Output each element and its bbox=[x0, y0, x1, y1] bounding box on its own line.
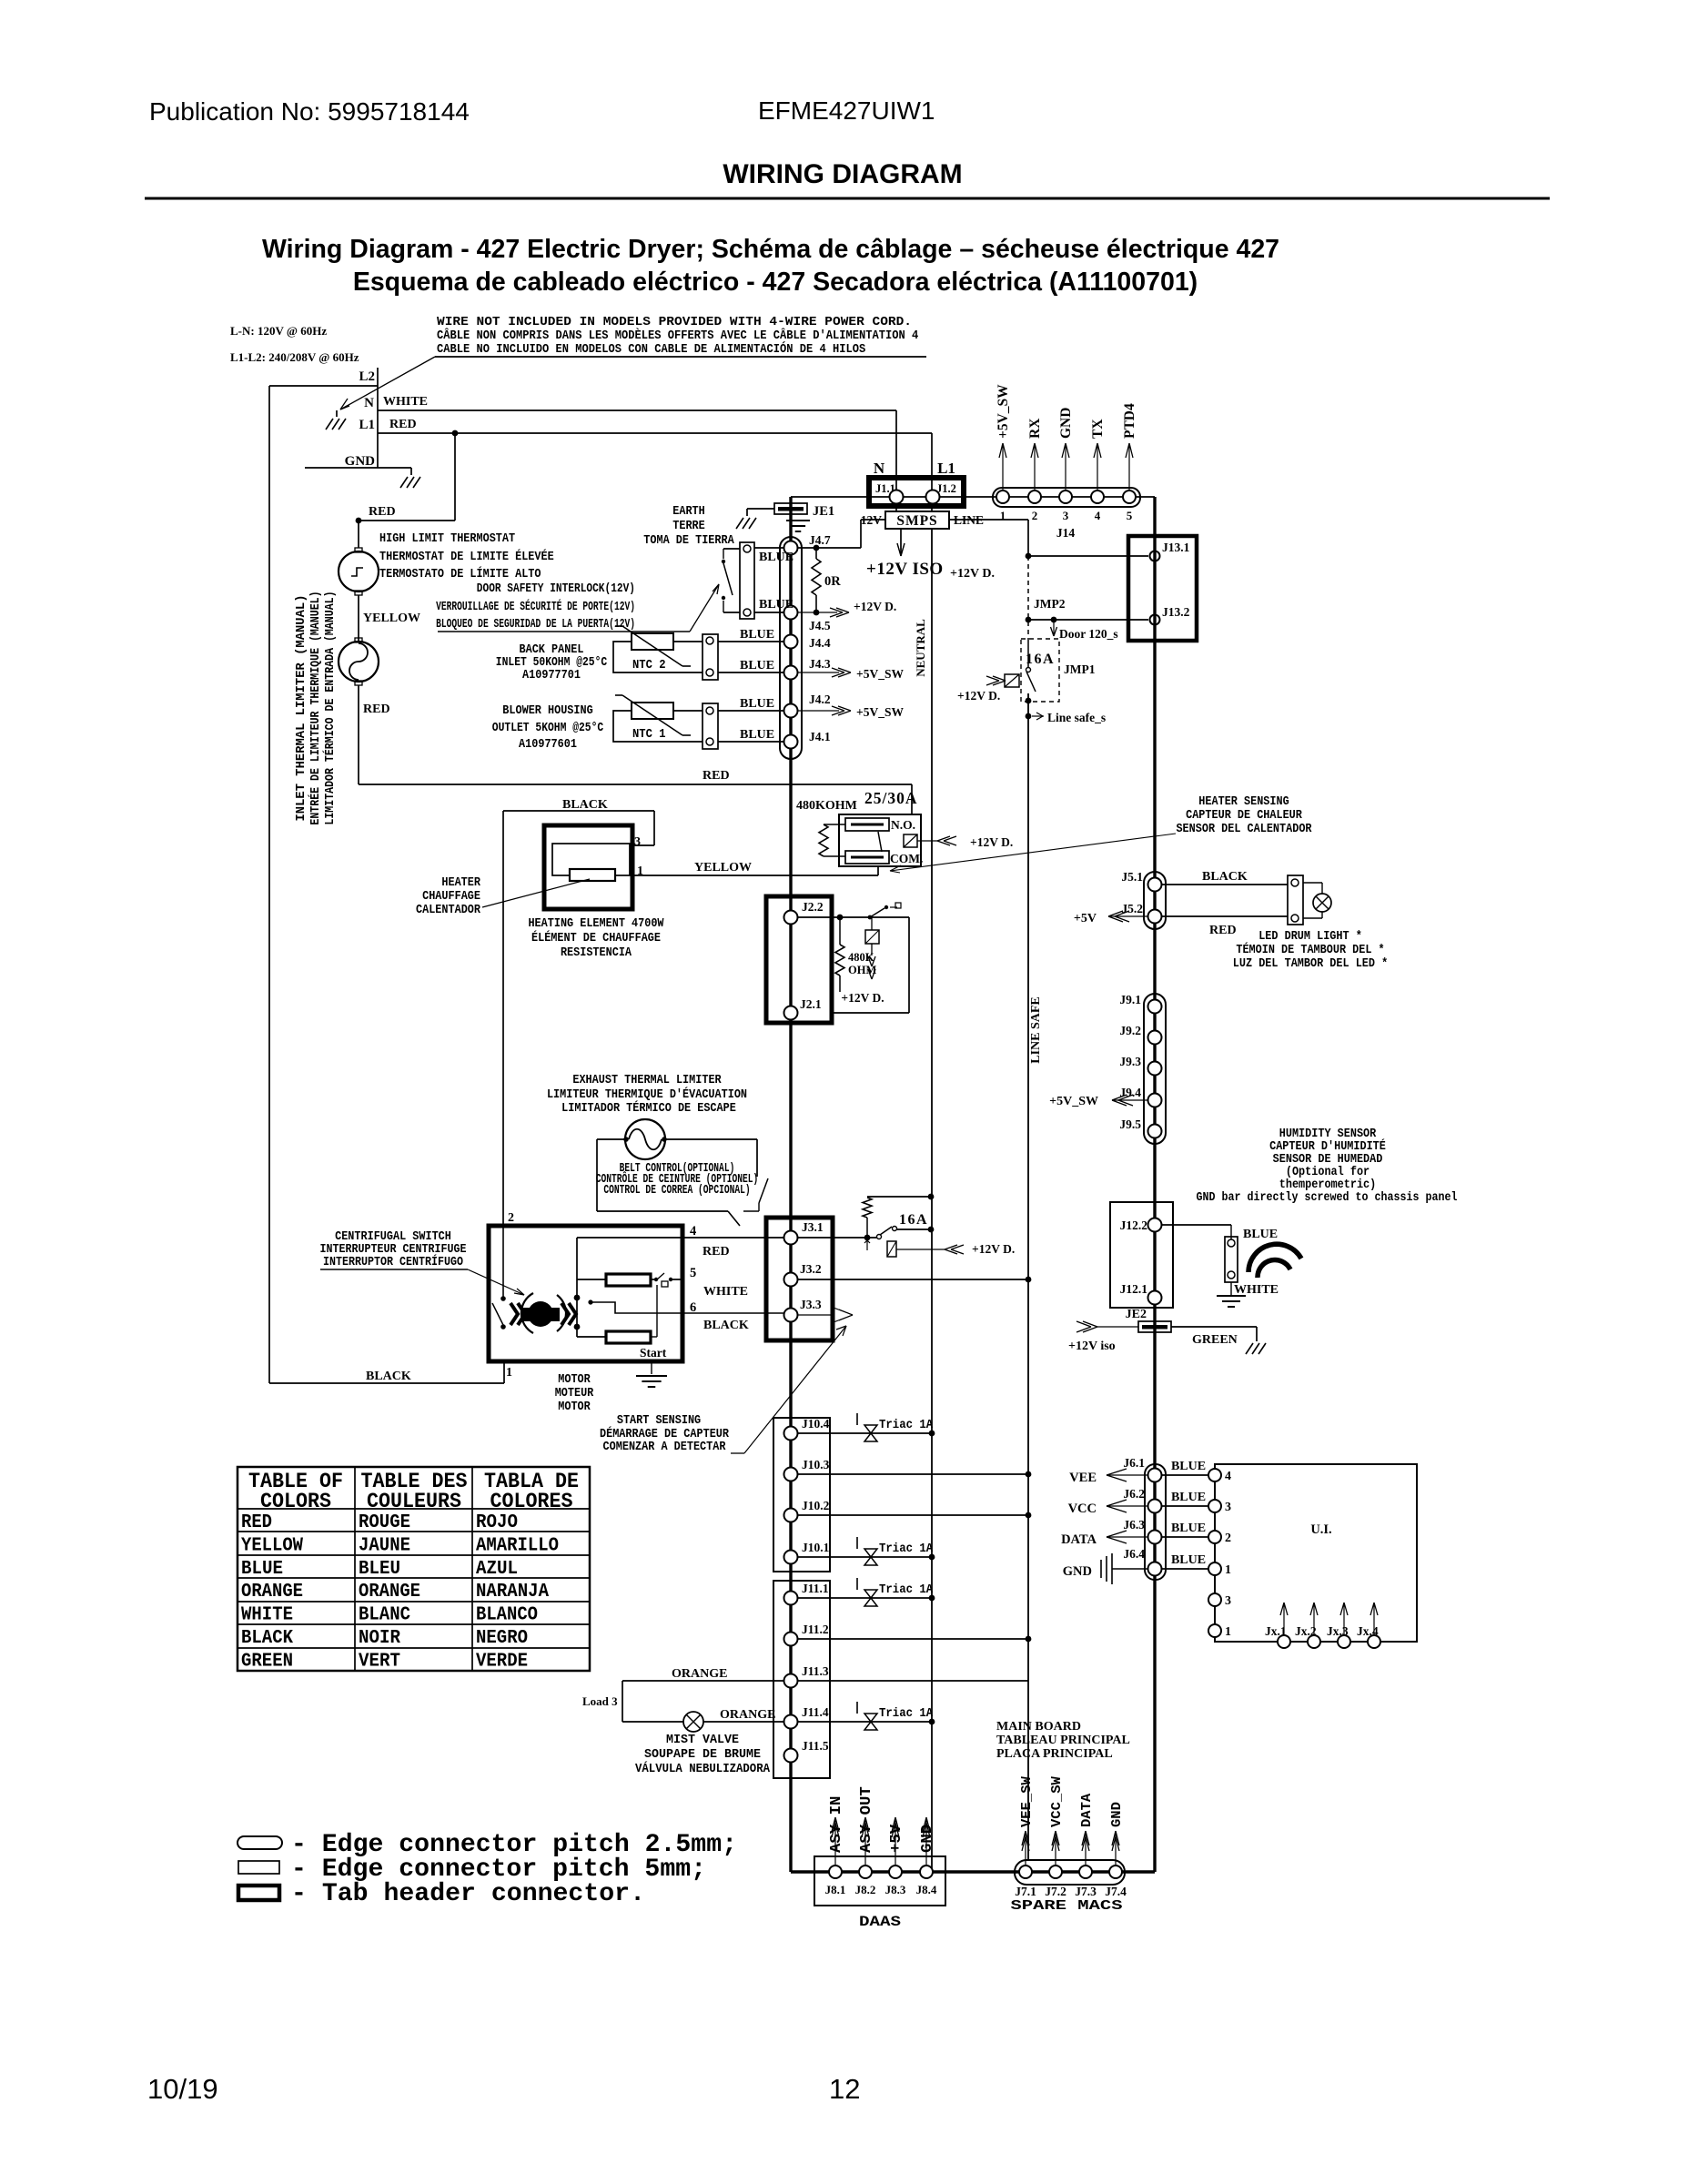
svg-text:A10977601: A10977601 bbox=[519, 737, 577, 752]
svg-text:DOOR SAFETY INTERLOCK(12V): DOOR SAFETY INTERLOCK(12V) bbox=[477, 581, 635, 596]
svg-text:CHAUFFAGE: CHAUFFAGE bbox=[422, 889, 480, 904]
svg-text:MOTEUR: MOTEUR bbox=[555, 1386, 594, 1400]
svg-text:DATA: DATA bbox=[1079, 1794, 1095, 1827]
svg-text:JMP2: JMP2 bbox=[1034, 597, 1066, 611]
svg-text:J9.2: J9.2 bbox=[1119, 1024, 1141, 1037]
svg-text:+12V D.: +12V D. bbox=[972, 1242, 1015, 1256]
svg-text:Esquema de cableado eléctrico: Esquema de cableado eléctrico - 427 Seca… bbox=[353, 268, 1198, 297]
svg-text:+12V iso: +12V iso bbox=[1068, 1340, 1116, 1353]
svg-text:WHITE: WHITE bbox=[703, 1285, 748, 1299]
svg-text:480KOHM: 480KOHM bbox=[796, 799, 857, 813]
svg-text:J9.5: J9.5 bbox=[1119, 1117, 1141, 1131]
svg-text:ENTRÉE DE LIMITEUR THERMIQUE (: ENTRÉE DE LIMITEUR THERMIQUE (MANUEL) bbox=[307, 591, 323, 824]
svg-text:4: 4 bbox=[690, 1224, 696, 1239]
svg-text:GREEN: GREEN bbox=[241, 1651, 293, 1672]
svg-text:BLUE: BLUE bbox=[1171, 1491, 1206, 1504]
svg-text:EARTH: EARTH bbox=[672, 504, 705, 519]
svg-text:Line safe_s: Line safe_s bbox=[1047, 711, 1106, 724]
svg-text:J8.4: J8.4 bbox=[916, 1883, 937, 1896]
svg-text:VERT: VERT bbox=[359, 1651, 400, 1672]
svg-text:J4.3: J4.3 bbox=[809, 657, 831, 671]
svg-text:GND: GND bbox=[1109, 1802, 1125, 1827]
svg-text:4: 4 bbox=[1095, 509, 1101, 522]
svg-text:+5V_SW: +5V_SW bbox=[856, 705, 904, 719]
svg-text:Jx.3: Jx.3 bbox=[1327, 1624, 1349, 1638]
svg-text:J8.3: J8.3 bbox=[885, 1883, 906, 1896]
svg-text:BLUE: BLUE bbox=[1171, 1522, 1206, 1535]
svg-text:VERROUILLAGE DE SÉCURITÉ DE PO: VERROUILLAGE DE SÉCURITÉ DE PORTE(12V) bbox=[436, 598, 635, 614]
svg-text:EXHAUST THERMAL LIMITER: EXHAUST THERMAL LIMITER bbox=[572, 1073, 722, 1087]
svg-text:+12V D.: +12V D. bbox=[950, 567, 995, 581]
svg-text:COM.: COM. bbox=[890, 852, 923, 865]
svg-text:L-N: 120V @ 60Hz: L-N: 120V @ 60Hz bbox=[230, 324, 327, 338]
svg-text:4: 4 bbox=[1225, 1470, 1231, 1483]
svg-text:BLUE: BLUE bbox=[1243, 1228, 1278, 1241]
svg-text:PLACA PRINCIPAL: PLACA PRINCIPAL bbox=[996, 1747, 1113, 1761]
svg-text:BLUE: BLUE bbox=[1171, 1460, 1206, 1473]
svg-text:LED DRUM LIGHT *: LED DRUM LIGHT * bbox=[1258, 929, 1362, 944]
svg-text:J12.2: J12.2 bbox=[1120, 1218, 1148, 1232]
svg-text:J4.5: J4.5 bbox=[809, 619, 831, 632]
svg-text:INLET THERMAL LIMITER (MANUAL): INLET THERMAL LIMITER (MANUAL) bbox=[294, 595, 308, 822]
svg-text:+5V_SW: +5V_SW bbox=[856, 667, 904, 681]
svg-text:J14: J14 bbox=[1056, 526, 1076, 540]
svg-text:AMARILLO: AMARILLO bbox=[476, 1535, 559, 1556]
svg-text:+12V D.: +12V D. bbox=[957, 689, 1000, 703]
svg-text:Publication No: 5995718144: Publication No: 5995718144 bbox=[149, 97, 470, 126]
svg-text:J5.2: J5.2 bbox=[1121, 902, 1143, 915]
svg-text:A10977701: A10977701 bbox=[522, 668, 581, 682]
svg-text:GND: GND bbox=[345, 454, 376, 469]
svg-text:BLOQUEO DE SEGURIDAD DE LA PUE: BLOQUEO DE SEGURIDAD DE LA PUERTA(12V) bbox=[436, 617, 635, 632]
svg-text:16A: 16A bbox=[899, 1212, 928, 1228]
svg-text:J3.2: J3.2 bbox=[800, 1262, 822, 1276]
svg-text:RED: RED bbox=[369, 505, 396, 519]
svg-text:BLUE: BLUE bbox=[241, 1559, 283, 1580]
svg-text:0R: 0R bbox=[824, 574, 841, 589]
svg-text:HEATER: HEATER bbox=[441, 875, 480, 890]
svg-text:RED: RED bbox=[363, 703, 390, 716]
svg-text:+5V: +5V bbox=[888, 1824, 905, 1853]
svg-text:TOMA DE TIERRA: TOMA DE TIERRA bbox=[643, 533, 734, 548]
svg-text:Start: Start bbox=[640, 1346, 667, 1360]
svg-text:HEATING ELEMENT 4700W: HEATING ELEMENT 4700W bbox=[528, 916, 664, 931]
svg-text:Triac 1A: Triac 1A bbox=[879, 1582, 934, 1597]
svg-text:N.O.: N.O. bbox=[891, 818, 915, 832]
svg-text:J6.2: J6.2 bbox=[1123, 1487, 1145, 1501]
svg-text:J6.3: J6.3 bbox=[1123, 1518, 1145, 1532]
svg-text:12: 12 bbox=[829, 2073, 860, 2105]
svg-text:BLOWER HOUSING: BLOWER HOUSING bbox=[502, 703, 592, 718]
svg-text:TÉMOIN DE TAMBOUR DEL *: TÉMOIN DE TAMBOUR DEL * bbox=[1236, 941, 1384, 957]
svg-text:Triac 1A: Triac 1A bbox=[879, 1418, 934, 1432]
svg-text:5: 5 bbox=[1127, 509, 1133, 522]
svg-text:START SENSING: START SENSING bbox=[617, 1413, 701, 1428]
svg-text:J11.4: J11.4 bbox=[802, 1705, 829, 1719]
svg-text:WIRING DIAGRAM: WIRING DIAGRAM bbox=[723, 159, 962, 189]
svg-text:CAPTEUR DE CHALEUR: CAPTEUR DE CHALEUR bbox=[1186, 808, 1302, 823]
svg-text:J11.1: J11.1 bbox=[802, 1582, 829, 1595]
svg-text:VEE_SW: VEE_SW bbox=[1019, 1776, 1035, 1827]
svg-text:+12V D.: +12V D. bbox=[970, 835, 1013, 849]
svg-text:J2.1: J2.1 bbox=[800, 997, 822, 1011]
svg-text:HIGH LIMIT THERMOSTAT: HIGH LIMIT THERMOSTAT bbox=[379, 531, 515, 546]
svg-text:PTD4: PTD4 bbox=[1122, 403, 1137, 439]
svg-text:EFME427UIW1: EFME427UIW1 bbox=[758, 96, 935, 125]
svg-text:+5V_SW: +5V_SW bbox=[1049, 1095, 1098, 1108]
svg-text:ORANGE: ORANGE bbox=[720, 1708, 775, 1722]
svg-text:JE2: JE2 bbox=[1126, 1308, 1147, 1321]
svg-text:INTERRUPTOR CENTRÍFUGO: INTERRUPTOR CENTRÍFUGO bbox=[323, 1253, 463, 1269]
svg-text:1: 1 bbox=[1225, 1625, 1231, 1639]
svg-text:GND: GND bbox=[1058, 408, 1074, 439]
svg-text:THERMOSTAT DE LIMITE ÉLEVÉE: THERMOSTAT DE LIMITE ÉLEVÉE bbox=[379, 548, 554, 564]
svg-text:LUZ DEL TAMBOR DEL LED *: LUZ DEL TAMBOR DEL LED * bbox=[1233, 956, 1388, 971]
svg-text:L1: L1 bbox=[359, 418, 375, 432]
svg-text:RED: RED bbox=[702, 1245, 730, 1259]
svg-text:TX: TX bbox=[1090, 419, 1106, 439]
svg-text:J3.1: J3.1 bbox=[802, 1220, 824, 1234]
svg-text:2: 2 bbox=[508, 1211, 514, 1225]
svg-text:BLUE: BLUE bbox=[740, 659, 774, 672]
svg-text:ORANGE: ORANGE bbox=[241, 1582, 303, 1603]
svg-text:ASY OUT: ASY OUT bbox=[858, 1786, 875, 1853]
svg-text:CALENTADOR: CALENTADOR bbox=[416, 903, 481, 917]
svg-text:BLUE: BLUE bbox=[759, 551, 793, 564]
svg-text:J5.1: J5.1 bbox=[1121, 870, 1143, 884]
svg-text:3: 3 bbox=[1225, 1594, 1231, 1608]
svg-text:RESISTENCIA: RESISTENCIA bbox=[561, 945, 632, 960]
svg-text:2: 2 bbox=[1032, 509, 1038, 522]
svg-text:J10.3: J10.3 bbox=[802, 1458, 830, 1471]
svg-text:JAUNE: JAUNE bbox=[359, 1535, 410, 1556]
svg-text:J11.2: J11.2 bbox=[802, 1623, 829, 1636]
svg-text:BLUE: BLUE bbox=[740, 697, 774, 711]
svg-text:WHITE: WHITE bbox=[241, 1605, 293, 1626]
svg-text:Jx.2: Jx.2 bbox=[1295, 1624, 1317, 1638]
svg-text:L2: L2 bbox=[359, 369, 375, 384]
svg-text:J7.3: J7.3 bbox=[1075, 1885, 1097, 1898]
svg-text:10/19: 10/19 bbox=[147, 2073, 218, 2105]
svg-text:SENSOR DEL CALENTADOR: SENSOR DEL CALENTADOR bbox=[1176, 822, 1312, 836]
svg-text:Triac 1A: Triac 1A bbox=[879, 1542, 934, 1556]
svg-text:YELLOW: YELLOW bbox=[694, 861, 752, 875]
svg-text:RED: RED bbox=[389, 418, 417, 431]
svg-text:Door 120_s: Door 120_s bbox=[1059, 627, 1118, 641]
svg-text:J12.1: J12.1 bbox=[1120, 1282, 1148, 1296]
svg-text:3: 3 bbox=[1225, 1501, 1231, 1514]
svg-text:VCC_SW: VCC_SW bbox=[1049, 1776, 1065, 1827]
svg-text:1: 1 bbox=[1225, 1563, 1231, 1577]
svg-text:+12V D.: +12V D. bbox=[854, 600, 896, 613]
svg-text:1: 1 bbox=[637, 864, 643, 878]
svg-text:J2.2: J2.2 bbox=[802, 900, 824, 914]
svg-text:SPARE MACS: SPARE MACS bbox=[1011, 1898, 1123, 1914]
svg-text:SMPS: SMPS bbox=[896, 513, 937, 529]
svg-text:CABLE NO INCLUIDO EN MODELOS C: CABLE NO INCLUIDO EN MODELOS CON CABLE D… bbox=[437, 340, 865, 357]
svg-text:+5V: +5V bbox=[1074, 912, 1097, 925]
svg-text:DAAS: DAAS bbox=[859, 1914, 901, 1930]
svg-text:J6.1: J6.1 bbox=[1123, 1456, 1145, 1470]
svg-text:DATA: DATA bbox=[1061, 1532, 1097, 1547]
svg-text:J4.7: J4.7 bbox=[809, 533, 831, 547]
svg-text:VERDE: VERDE bbox=[476, 1651, 528, 1672]
svg-text:ROJO: ROJO bbox=[476, 1512, 518, 1533]
svg-text:COULEURS: COULEURS bbox=[367, 1490, 461, 1513]
svg-text:NARANJA: NARANJA bbox=[476, 1582, 549, 1603]
svg-text:LIMITEUR THERMIQUE D'ÉVACUATIO: LIMITEUR THERMIQUE D'ÉVACUATION bbox=[547, 1086, 747, 1102]
svg-text:MOTOR: MOTOR bbox=[558, 1400, 591, 1414]
svg-text:LIMITADOR TÉRMICO DE ESCAPE: LIMITADOR TÉRMICO DE ESCAPE bbox=[561, 1099, 736, 1116]
svg-text:J4.2: J4.2 bbox=[809, 693, 831, 706]
svg-text:J10.4: J10.4 bbox=[802, 1417, 830, 1431]
svg-text:J4.1: J4.1 bbox=[809, 730, 831, 743]
svg-text:J9.1: J9.1 bbox=[1119, 993, 1141, 1006]
svg-text:16A: 16A bbox=[1026, 652, 1055, 667]
svg-text:J7.4: J7.4 bbox=[1105, 1885, 1127, 1898]
svg-text:GREEN: GREEN bbox=[1192, 1333, 1238, 1347]
svg-text:NTC 1: NTC 1 bbox=[632, 727, 666, 742]
svg-text:Jx.4: Jx.4 bbox=[1357, 1624, 1379, 1638]
svg-text:BLEU: BLEU bbox=[359, 1559, 400, 1580]
svg-text:JE1: JE1 bbox=[813, 504, 834, 519]
svg-text:RED: RED bbox=[241, 1512, 272, 1533]
svg-text:Triac 1A: Triac 1A bbox=[879, 1706, 934, 1721]
svg-text:SOUPAPE DE BRUME: SOUPAPE DE BRUME bbox=[644, 1747, 761, 1762]
svg-text:RED: RED bbox=[702, 769, 730, 783]
svg-text:NEGRO: NEGRO bbox=[476, 1628, 528, 1649]
svg-text:RX: RX bbox=[1027, 418, 1043, 439]
svg-text:WIRE NOT INCLUDED IN MODELS PR: WIRE NOT INCLUDED IN MODELS PROVIDED WIT… bbox=[437, 315, 912, 329]
svg-text:LINE SAFE: LINE SAFE bbox=[1029, 996, 1043, 1064]
svg-text:LIMITADOR TÉRMICO DE ENTRADA (: LIMITADOR TÉRMICO DE ENTRADA (MANUAL) bbox=[321, 591, 338, 824]
svg-text:BLACK: BLACK bbox=[703, 1319, 749, 1332]
svg-text:Load 3: Load 3 bbox=[582, 1694, 618, 1708]
svg-text:TABLEAU PRINCIPAL: TABLEAU PRINCIPAL bbox=[996, 1734, 1130, 1747]
svg-text:+12V D.: +12V D. bbox=[841, 991, 884, 1005]
svg-text:N: N bbox=[874, 460, 885, 477]
svg-text:BLUE: BLUE bbox=[1171, 1553, 1206, 1567]
svg-text:J8.1: J8.1 bbox=[825, 1883, 846, 1896]
svg-text:L1-L2: 240/208V @ 60Hz: L1-L2: 240/208V @ 60Hz bbox=[230, 350, 359, 364]
svg-text:WHITE: WHITE bbox=[1234, 1283, 1279, 1297]
svg-text:L1: L1 bbox=[937, 460, 955, 477]
svg-text:VEE: VEE bbox=[1069, 1471, 1097, 1485]
svg-text:J4.4: J4.4 bbox=[809, 636, 831, 650]
svg-text:MOTOR: MOTOR bbox=[558, 1372, 591, 1387]
svg-text:J9.4: J9.4 bbox=[1119, 1086, 1141, 1099]
svg-text:BLACK: BLACK bbox=[241, 1628, 293, 1649]
svg-text:GND bar directly screwed to ch: GND bar directly screwed to chassis pane… bbox=[1197, 1190, 1458, 1205]
svg-text:RED: RED bbox=[1209, 924, 1237, 937]
svg-text:BLUE: BLUE bbox=[740, 628, 774, 642]
svg-text:NOIR: NOIR bbox=[359, 1628, 400, 1649]
svg-text:J11.5: J11.5 bbox=[802, 1739, 829, 1753]
svg-text:CÂBLE NON COMPRIS DANS LES MOD: CÂBLE NON COMPRIS DANS LES MODÈLES OFFER… bbox=[437, 327, 918, 343]
svg-text:VÁLVULA NEBULIZADORA: VÁLVULA NEBULIZADORA bbox=[635, 1760, 771, 1776]
svg-text:5: 5 bbox=[690, 1266, 696, 1280]
svg-text:GND: GND bbox=[919, 1825, 936, 1853]
svg-text:J6.4: J6.4 bbox=[1123, 1547, 1145, 1561]
svg-text:J8.2: J8.2 bbox=[855, 1883, 876, 1896]
svg-text:1: 1 bbox=[506, 1366, 512, 1380]
svg-text:BLACK: BLACK bbox=[1202, 870, 1248, 884]
svg-text:J9.3: J9.3 bbox=[1119, 1055, 1141, 1068]
svg-text:YELLOW: YELLOW bbox=[241, 1535, 303, 1556]
svg-text:HEATER SENSING: HEATER SENSING bbox=[1198, 794, 1289, 809]
svg-text:ASY IN: ASY IN bbox=[828, 1796, 845, 1853]
svg-text:MAIN BOARD: MAIN BOARD bbox=[996, 1720, 1081, 1734]
svg-text:ORANGE: ORANGE bbox=[359, 1582, 420, 1603]
svg-text:6: 6 bbox=[690, 1300, 696, 1315]
svg-text:NTC 2: NTC 2 bbox=[632, 658, 666, 672]
svg-text:J13.1: J13.1 bbox=[1162, 541, 1190, 554]
svg-text:J7.2: J7.2 bbox=[1045, 1885, 1066, 1898]
svg-text:U.I.: U.I. bbox=[1310, 1522, 1331, 1537]
svg-text:BLUE: BLUE bbox=[759, 598, 793, 612]
svg-text:ÉLÉMENT DE CHAUFFAGE: ÉLÉMENT DE CHAUFFAGE bbox=[531, 929, 661, 945]
svg-text:ROUGE: ROUGE bbox=[359, 1512, 410, 1533]
svg-text:2: 2 bbox=[1225, 1532, 1231, 1545]
svg-text:J11.3: J11.3 bbox=[802, 1664, 829, 1678]
svg-text:COLORES: COLORES bbox=[490, 1490, 573, 1513]
svg-text:CONTROL DE CORREA (OPCIONAL): CONTROL DE CORREA (OPCIONAL) bbox=[603, 1183, 750, 1198]
svg-text:MIST VALVE: MIST VALVE bbox=[666, 1733, 739, 1747]
svg-text:TERRE: TERRE bbox=[672, 519, 705, 533]
svg-text:TERMOSTATO DE LÍMITE ALTO: TERMOSTATO DE LÍMITE ALTO bbox=[379, 565, 541, 581]
svg-text:BLANC: BLANC bbox=[359, 1605, 410, 1626]
svg-text:J13.2: J13.2 bbox=[1162, 605, 1190, 619]
svg-text:JMP1: JMP1 bbox=[1064, 662, 1096, 676]
svg-text:VCC: VCC bbox=[1068, 1501, 1097, 1516]
svg-text:Wiring Diagram - 427 Electric: Wiring Diagram - 427 Electric Dryer; Sch… bbox=[262, 235, 1279, 264]
svg-text:GND: GND bbox=[1063, 1564, 1092, 1579]
svg-text:BLACK: BLACK bbox=[562, 798, 608, 812]
svg-text:N: N bbox=[364, 396, 374, 410]
svg-text:OUTLET 5KOHM @25°C: OUTLET 5KOHM @25°C bbox=[492, 721, 604, 735]
svg-text:J10.1: J10.1 bbox=[802, 1541, 830, 1554]
svg-text:+5V_SW: +5V_SW bbox=[996, 384, 1011, 439]
svg-text:NEUTRAL: NEUTRAL bbox=[914, 619, 927, 677]
svg-text:3: 3 bbox=[1063, 509, 1069, 522]
svg-text:J10.2: J10.2 bbox=[802, 1499, 830, 1512]
svg-text:25/30A: 25/30A bbox=[864, 789, 918, 807]
svg-text:J3.3: J3.3 bbox=[800, 1298, 822, 1311]
svg-text:WHITE: WHITE bbox=[383, 395, 428, 409]
svg-text:YELLOW: YELLOW bbox=[363, 612, 420, 625]
svg-text:AZUL: AZUL bbox=[476, 1559, 518, 1580]
svg-text:- Tab header connector.: - Tab header connector. bbox=[291, 1880, 645, 1908]
svg-text:BLACK: BLACK bbox=[366, 1370, 411, 1383]
svg-text:COLORS: COLORS bbox=[260, 1490, 331, 1513]
svg-text:J7.1: J7.1 bbox=[1015, 1885, 1036, 1898]
svg-text:BLANCO: BLANCO bbox=[476, 1605, 538, 1626]
svg-text:BLUE: BLUE bbox=[740, 728, 774, 742]
svg-text:COMENZAR A DETECTAR: COMENZAR A DETECTAR bbox=[603, 1440, 726, 1454]
svg-text:ORANGE: ORANGE bbox=[672, 1667, 727, 1681]
svg-text:3: 3 bbox=[634, 835, 641, 849]
svg-text:Jx.1: Jx.1 bbox=[1265, 1624, 1287, 1638]
